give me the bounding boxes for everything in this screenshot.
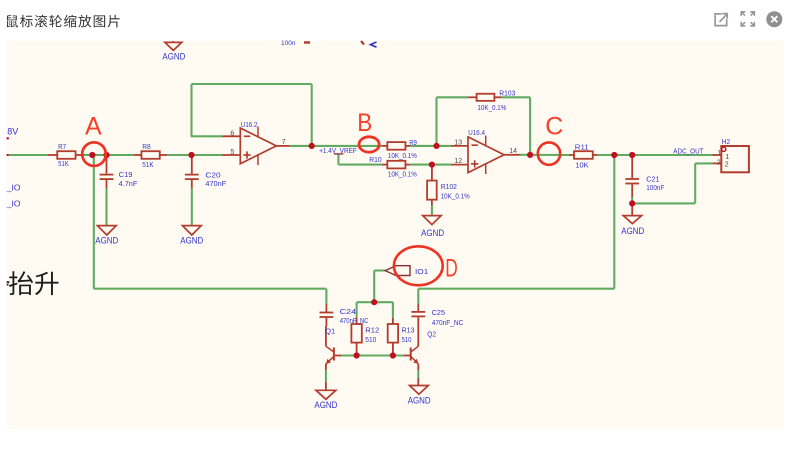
svg-text:510: 510 bbox=[402, 335, 412, 344]
svg-text:10K_0.1%: 10K_0.1% bbox=[388, 169, 417, 178]
svg-text:ADC_OUT: ADC_OUT bbox=[673, 146, 704, 155]
svg-text:51K: 51K bbox=[142, 160, 154, 169]
svg-text:10K: 10K bbox=[575, 160, 588, 169]
svg-text:AGND: AGND bbox=[421, 228, 444, 238]
svg-text:AGND: AGND bbox=[180, 236, 203, 246]
svg-text:5: 5 bbox=[230, 149, 234, 156]
svg-text:470nF_NC: 470nF_NC bbox=[432, 318, 464, 327]
svg-text:2: 2 bbox=[725, 161, 729, 168]
svg-text:1: 1 bbox=[717, 150, 721, 157]
svg-text:4.7nF: 4.7nF bbox=[119, 179, 138, 188]
svg-text:AGND: AGND bbox=[95, 236, 118, 246]
svg-text:510: 510 bbox=[365, 335, 376, 344]
svg-text:10K_0.1%: 10K_0.1% bbox=[441, 192, 470, 201]
svg-text:B: B bbox=[357, 109, 372, 137]
svg-text:R10: R10 bbox=[369, 155, 381, 164]
svg-text:AGND: AGND bbox=[162, 51, 185, 61]
svg-text:470nF: 470nF bbox=[205, 179, 226, 188]
svg-text:10K_0.1%: 10K_0.1% bbox=[388, 151, 417, 160]
svg-text:AGND: AGND bbox=[621, 226, 644, 236]
svg-text:_IO: _IO bbox=[6, 183, 21, 193]
svg-text:+1.4V_VREF: +1.4V_VREF bbox=[319, 146, 357, 155]
svg-text:U16.2: U16.2 bbox=[241, 120, 258, 129]
svg-text:12: 12 bbox=[454, 158, 462, 165]
svg-text:R13: R13 bbox=[402, 326, 415, 335]
svg-text:R8: R8 bbox=[142, 142, 150, 151]
svg-text:7: 7 bbox=[282, 139, 286, 146]
svg-text:AGND: AGND bbox=[408, 395, 431, 405]
svg-text:R11: R11 bbox=[575, 143, 589, 152]
svg-text:10K_0.1%: 10K_0.1% bbox=[477, 103, 506, 112]
svg-text:_IO: _IO bbox=[6, 198, 21, 208]
svg-text:A: A bbox=[85, 113, 102, 141]
svg-text:R9: R9 bbox=[409, 138, 417, 147]
svg-text:100nF: 100nF bbox=[646, 183, 664, 192]
svg-text:100n: 100n bbox=[281, 40, 296, 47]
svg-text:13: 13 bbox=[454, 139, 462, 146]
svg-text:AGND: AGND bbox=[314, 400, 337, 410]
svg-text:C: C bbox=[545, 113, 563, 141]
svg-text:R12: R12 bbox=[365, 326, 379, 335]
svg-text:C25: C25 bbox=[432, 308, 445, 317]
svg-text:IO1: IO1 bbox=[415, 267, 428, 276]
svg-text:8V: 8V bbox=[7, 127, 18, 137]
svg-text:470nF_NC: 470nF_NC bbox=[340, 316, 369, 325]
svg-text:R7: R7 bbox=[58, 142, 66, 151]
svg-text:1: 1 bbox=[725, 154, 729, 161]
svg-text:U16.4: U16.4 bbox=[468, 128, 485, 137]
svg-text:14: 14 bbox=[509, 148, 517, 155]
svg-text:51K: 51K bbox=[58, 159, 69, 168]
svg-text:R103: R103 bbox=[499, 89, 515, 98]
svg-text:H2: H2 bbox=[722, 137, 730, 146]
svg-text:R102: R102 bbox=[441, 182, 457, 191]
svg-text:C19: C19 bbox=[119, 170, 133, 179]
svg-text:Q1: Q1 bbox=[325, 327, 335, 336]
svg-text:6: 6 bbox=[230, 130, 234, 137]
svg-text:2: 2 bbox=[717, 160, 721, 167]
svg-text:C24: C24 bbox=[340, 307, 356, 316]
svg-text:Q2: Q2 bbox=[427, 329, 436, 338]
svg-text:D: D bbox=[445, 254, 458, 282]
